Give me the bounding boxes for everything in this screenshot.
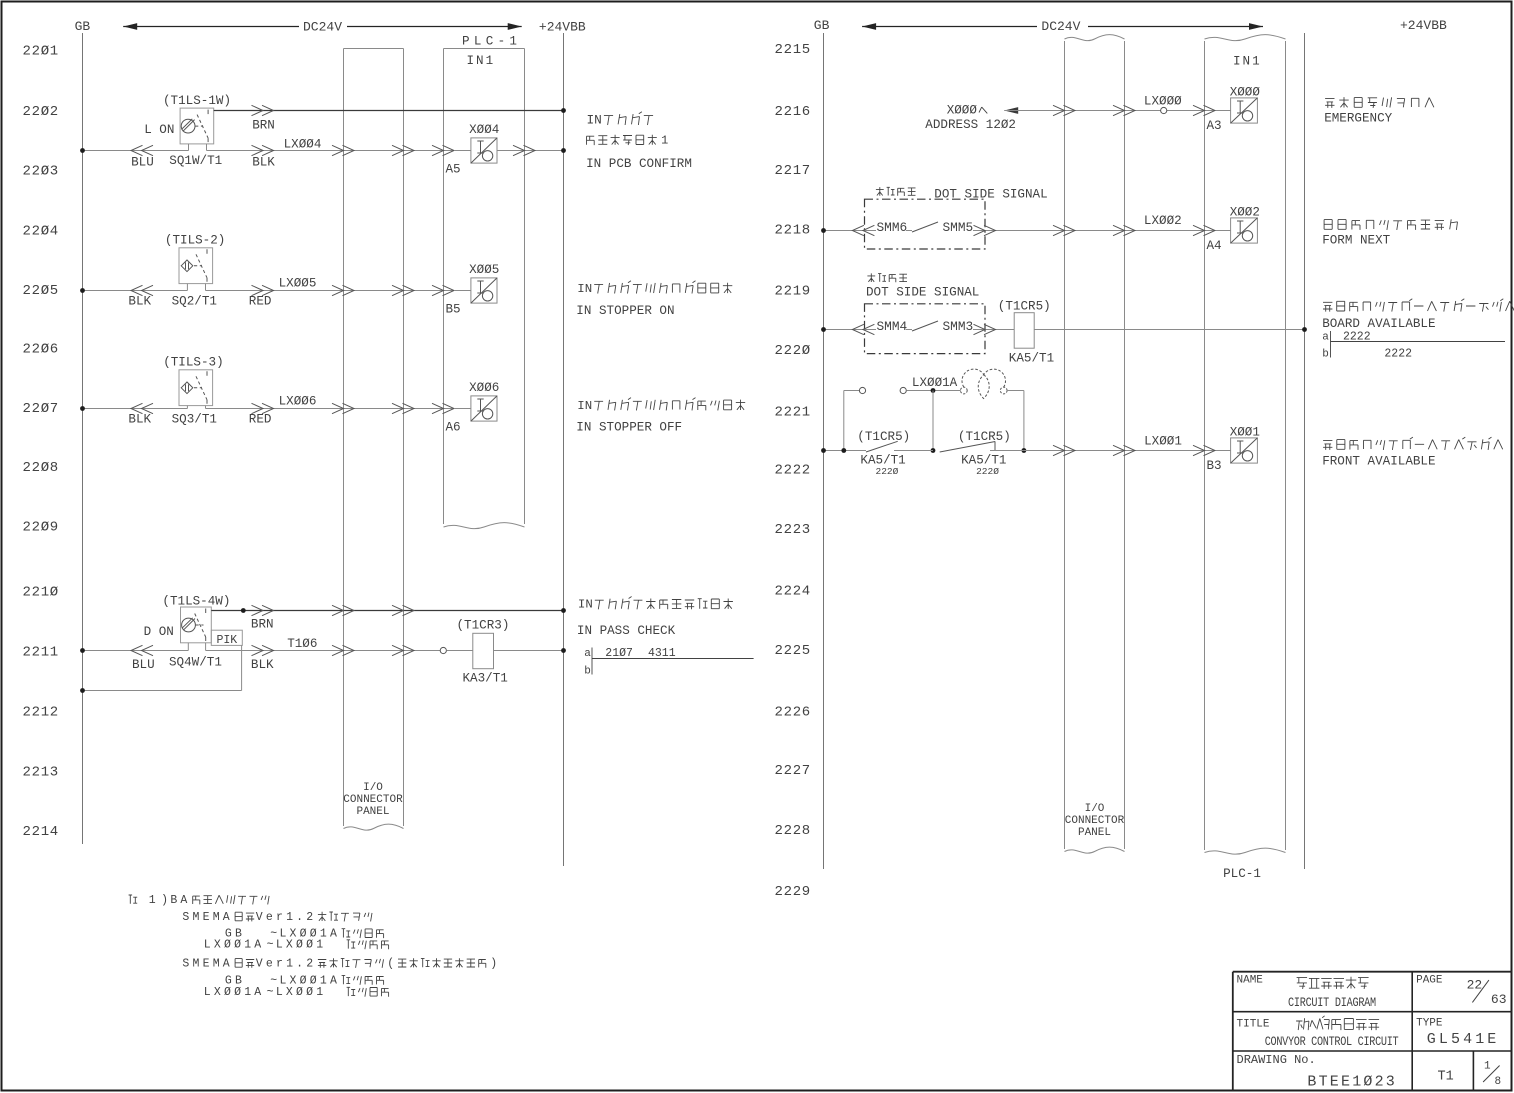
PLC input X006 pin A6: [446, 381, 500, 434]
svg-text:22Ø3: 22Ø3: [23, 164, 59, 180]
chevrons panel entry row 2222: [1053, 445, 1065, 455]
PLC input X002 pin A4: [1207, 205, 1260, 253]
junction corner on contact wire: [1022, 448, 1027, 453]
svg-text:I/O: I/O: [363, 782, 383, 794]
svg-text:PIK: PIK: [217, 634, 238, 647]
svg-text:A3: A3: [1207, 119, 1222, 133]
svg-text:DOT SIDE SIGNAL: DOT SIDE SIGNAL: [866, 286, 979, 300]
svg-text:XØØ6: XØØ6: [469, 381, 499, 395]
svg-text:22Ø5: 22Ø5: [23, 283, 59, 299]
wire SMM box to coil: [985, 329, 1014, 331]
chevrons BRN row 2210: [252, 605, 264, 615]
svg-text:T1Ø6: T1Ø6: [287, 637, 317, 651]
PLC-1 rack box (right): [1205, 35, 1286, 855]
external signal contact SMM6/SMM5: [865, 199, 986, 249]
PIK return branch to GB bus: [241, 645, 243, 690]
comment: IN conveyor side PCB pass confirm (Japanese): [595, 597, 733, 610]
svg-text:IN: IN: [587, 112, 602, 127]
wire GB to SMM box row 2218: [824, 230, 865, 232]
svg-text:SQ1W/T1: SQ1W/T1: [169, 154, 222, 168]
junction +24VBB row 2211: [561, 648, 566, 653]
limit switch SQ1W/T1 (T1LS-1W): [180, 108, 214, 150]
svg-text:SMM5: SMM5: [943, 220, 974, 235]
svg-text:a: a: [584, 648, 591, 660]
svg-text:(T1LS-1W): (T1LS-1W): [163, 94, 231, 108]
svg-text:a: a: [1322, 332, 1329, 344]
svg-text:IN: IN: [577, 282, 592, 296]
notes about BA signal (Japanese): [129, 895, 138, 904]
svg-text:2213: 2213: [23, 765, 59, 781]
svg-text:22: 22: [1467, 978, 1483, 993]
connector chevrons BLK: [252, 145, 264, 155]
svg-text:BOARD AVAILABLE: BOARD AVAILABLE: [1322, 317, 1435, 331]
svg-text:RED: RED: [249, 295, 272, 309]
junction GB row 2220: [821, 327, 826, 332]
svg-text:PANEL: PANEL: [1078, 827, 1111, 839]
wire X004 to +24VBB bus: [497, 150, 564, 152]
svg-text:+24VBB: +24VBB: [539, 20, 586, 35]
+24VBB bus (left): [563, 33, 565, 866]
chevrons BRN panel exit: [392, 605, 404, 615]
svg-text:BRN: BRN: [252, 119, 275, 133]
rung number column (right) 2215-2229: [775, 42, 811, 900]
svg-text:GL541E: GL541E: [1427, 1031, 1500, 1048]
svg-text:LXØØØ: LXØØØ: [1144, 95, 1182, 109]
wire GB bus to switch (BLU): [83, 150, 189, 152]
wire coil to +24VBB: [494, 650, 564, 652]
svg-text:DC24V: DC24V: [1041, 19, 1080, 34]
svg-text:BRN: BRN: [251, 618, 274, 632]
comment: board available from previous process (Japanese): [1323, 299, 1514, 312]
comment: board over label from previous process (Japanese): [1323, 437, 1503, 450]
chevrons RED: [252, 285, 264, 295]
svg-text:TITLE: TITLE: [1237, 1019, 1270, 1031]
PLC input X005 pin B5: [446, 263, 500, 316]
connector chevrons toward bus: [131, 145, 143, 155]
rung number column (left) 2201-2214: [23, 44, 59, 841]
svg-text:2214: 2214: [23, 824, 59, 840]
svg-text:(T1CR5): (T1CR5): [857, 430, 910, 444]
svg-text:LXØØ1A: LXØØ1A: [204, 939, 265, 952]
svg-text:CONVYOR CONTROL CIRCUIT: CONVYOR CONTROL CIRCUIT: [1265, 1036, 1399, 1049]
svg-text:SQ4W/T1: SQ4W/T1: [169, 656, 222, 670]
junction +24VBB row 2210: [561, 608, 566, 613]
wire into X001: [1216, 450, 1231, 452]
junction +24VBB row 2220: [1302, 327, 1307, 332]
svg-text:KA3/T1: KA3/T1: [463, 672, 508, 686]
GB bus (right): [823, 33, 825, 869]
wire into X006: [454, 408, 471, 410]
wire LX001A: [906, 390, 960, 392]
wire GB bus to TILS-2: [83, 290, 188, 292]
branch LX001A down to contact wire: [932, 391, 934, 451]
svg-text:PAGE: PAGE: [1416, 975, 1443, 987]
svg-text:IN STOPPER ON: IN STOPPER ON: [576, 304, 674, 318]
title block sheet 1/8: [1483, 1061, 1501, 1089]
svg-text:22Ø4: 22Ø4: [23, 224, 59, 240]
svg-text:LXØØ1: LXØØ1: [276, 986, 327, 999]
svg-text:I/O: I/O: [1085, 803, 1105, 815]
junction GB row 2222: [821, 448, 826, 453]
chevrons toward bus row 2205: [131, 285, 143, 295]
svg-text:222Ø: 222Ø: [876, 466, 899, 477]
wire SMM box to PLC row 2218: [985, 230, 1231, 232]
terminal circle LX000: [1161, 107, 1167, 113]
junction on BRN wire: [241, 608, 246, 613]
svg-text:2228: 2228: [775, 823, 811, 839]
svg-text:63: 63: [1491, 992, 1507, 1007]
svg-text:XØØ2: XØØ2: [1230, 205, 1260, 219]
svg-text:EMERGENCY: EMERGENCY: [1324, 112, 1392, 126]
chevrons toward bus row 2211: [131, 645, 143, 655]
svg-text:SMEMA: SMEMA: [182, 957, 233, 970]
junction contact wire mid: [931, 448, 936, 453]
relay contact KA5/T1 NC (T1CR5) second: [940, 430, 1024, 477]
svg-text:1: 1: [149, 894, 159, 907]
svg-text:222Ø: 222Ø: [976, 466, 999, 477]
svg-text:2219: 2219: [775, 284, 811, 300]
svg-text:22Ø7: 22Ø7: [23, 401, 59, 417]
svg-text:2212: 2212: [23, 705, 59, 721]
chevrons panel entry row 2205: [332, 285, 344, 295]
chevrons PLC entry row 2222: [1193, 445, 1205, 455]
svg-text:TYPE: TYPE: [1416, 1018, 1443, 1030]
wire RED / LX006 to PLC: [206, 408, 471, 410]
I/O connector panel column (left): [344, 49, 404, 831]
wire into X002: [1216, 230, 1231, 232]
I/O connector panel column (right): [1065, 35, 1125, 854]
svg-text:DOT SIDE SIGNAL: DOT SIDE SIGNAL: [934, 188, 1047, 202]
svg-text:IN PASS CHECK: IN PASS CHECK: [577, 624, 676, 638]
svg-text:b: b: [1322, 349, 1329, 361]
svg-text:22Ø6: 22Ø6: [23, 342, 59, 358]
junction GB row 2218: [821, 228, 826, 233]
svg-text:2218: 2218: [775, 223, 811, 239]
comment: IN conveyor stopper-in confirm (Japanese): [594, 281, 732, 294]
svg-text:T1: T1: [1438, 1070, 1454, 1085]
svg-text:XØØØ: XØØØ: [1230, 85, 1261, 99]
svg-text:CONNECTOR: CONNECTOR: [343, 794, 403, 806]
svg-text:2227: 2227: [775, 763, 811, 779]
proximity switch SQ2/T1 (TILS-2): [179, 248, 213, 291]
svg-text:CIRCUIT DIAGRAM: CIRCUIT DIAGRAM: [1288, 997, 1376, 1010]
wire into X004: [454, 150, 471, 152]
svg-text:RED: RED: [249, 413, 272, 427]
svg-text:2217: 2217: [775, 163, 811, 179]
svg-text:LXØØ1A: LXØØ1A: [912, 376, 958, 390]
svg-text:ADDRESS 12Ø2: ADDRESS 12Ø2: [925, 118, 1016, 132]
jumper stub 1 (GB side): [843, 391, 845, 451]
arrow to X000 address: [1004, 107, 1018, 114]
svg-text:1: 1: [661, 134, 668, 148]
chevrons at panel entry: [332, 145, 344, 155]
junction stub1: [841, 448, 846, 453]
svg-text:222Ø: 222Ø: [775, 343, 811, 359]
chevrons PLC entry row 2207: [432, 403, 444, 413]
chevrons panel exit row 2205: [392, 285, 404, 295]
relay coil KA3/T1 (T1CR3): [473, 633, 494, 668]
svg-text:BLK: BLK: [251, 658, 274, 672]
connector chevrons on BRN wire: [252, 105, 264, 115]
svg-text:(: (: [387, 957, 394, 970]
chevrons panel exit row 2211: [392, 645, 404, 655]
chevrons BRN panel entry: [332, 605, 344, 615]
svg-text:FRONT AVAILABLE: FRONT AVAILABLE: [1322, 455, 1435, 469]
svg-text:SQ3/T1: SQ3/T1: [172, 413, 217, 427]
svg-text:IN1: IN1: [1233, 55, 1262, 69]
svg-text:+24VBB: +24VBB: [1400, 18, 1447, 33]
svg-text:BA: BA: [170, 894, 190, 907]
chevrons panel exit row 2218: [1113, 225, 1125, 235]
wire BRN row 2210 to +24VBB: [211, 610, 563, 612]
svg-text:LXØØ1A: LXØØ1A: [204, 986, 265, 999]
label X000he / ADDRESS 1202: [979, 107, 987, 113]
svg-text:DRAWING No.: DRAWING No.: [1237, 1053, 1316, 1067]
cross reference a/b 2222: [1322, 331, 1505, 361]
svg-text:SMEMA: SMEMA: [182, 911, 233, 924]
junction LX001A branch: [931, 388, 936, 393]
junction GB row 2211: [80, 648, 85, 653]
junction GB return: [80, 688, 85, 693]
DC24V span arrow (left): [123, 23, 522, 30]
svg-text:SQ2/T1: SQ2/T1: [172, 295, 217, 309]
svg-text:2229: 2229: [775, 884, 811, 900]
svg-text:2216: 2216: [775, 104, 811, 120]
svg-text:2222: 2222: [1384, 348, 1412, 361]
svg-text:XØØ5: XØØ5: [469, 263, 499, 277]
svg-text:L ON: L ON: [144, 123, 174, 137]
svg-text:PLC-1: PLC-1: [1223, 867, 1261, 881]
svg-text:PANEL: PANEL: [356, 806, 389, 818]
svg-text:A4: A4: [1207, 239, 1222, 253]
svg-text:(T1CR5): (T1CR5): [998, 300, 1051, 314]
svg-text:22Ø9: 22Ø9: [23, 520, 59, 536]
comment: board feed from next process (Japanese): [1324, 219, 1457, 230]
chevrons BLK row 2211: [252, 645, 264, 655]
PLC input X001 pin B3: [1207, 425, 1260, 473]
chevrons at panel exit: [392, 145, 404, 155]
svg-text:LXØØ1: LXØØ1: [276, 939, 327, 952]
svg-text:221Ø: 221Ø: [23, 585, 59, 601]
svg-text:BLU: BLU: [132, 658, 155, 672]
svg-text:LXØØ2: LXØØ2: [1144, 214, 1182, 228]
PLC input X000 pin A3: [1207, 85, 1261, 133]
GB bus (left): [82, 33, 84, 844]
svg-text:B5: B5: [446, 302, 461, 316]
svg-text:B3: B3: [1207, 459, 1222, 473]
svg-text:4311: 4311: [648, 647, 676, 660]
svg-text:2226: 2226: [775, 705, 811, 721]
svg-text:(T1CR3): (T1CR3): [457, 619, 510, 633]
svg-text:LXØØ6: LXØØ6: [279, 395, 317, 409]
relay contact KA5/T1 NO (T1CR5): [849, 430, 933, 477]
svg-text:BLK: BLK: [128, 413, 151, 427]
svg-text:LXØØ1: LXØØ1: [1144, 435, 1182, 449]
+24VBB bus (right): [1304, 33, 1306, 869]
terminal circle LX001A left: [900, 387, 906, 393]
chevrons panel exit row 2216: [1113, 105, 1125, 115]
chevrons PLC entry row 2218: [1193, 225, 1205, 235]
comment: emergency stop switch (Japanese): [1325, 97, 1434, 108]
svg-text:(TILS-3): (TILS-3): [163, 356, 223, 370]
svg-text:LXØØ5: LXØØ5: [279, 277, 317, 291]
wire LX000 row 2216: [1004, 110, 1160, 112]
svg-text:XØØ4: XØØ4: [469, 123, 499, 137]
wire LX001 to PLC: [1024, 450, 1231, 452]
wire into X005: [454, 290, 471, 292]
svg-text:DC24V: DC24V: [303, 20, 342, 35]
chevrons panel entry row 2211: [332, 645, 344, 655]
svg-text:BLK: BLK: [252, 156, 275, 170]
svg-text:KA5/T1: KA5/T1: [1009, 352, 1054, 366]
svg-text:SMM6: SMM6: [877, 220, 908, 235]
junction GB bus row 2207: [80, 406, 85, 411]
chevrons at SMM box right row 2219: [974, 324, 986, 334]
svg-text:8: 8: [1495, 1076, 1502, 1088]
chevrons panel entry row 2207: [332, 403, 344, 413]
PLC-1 rack box (left): [444, 49, 525, 529]
junction +24VBB x BRN: [561, 108, 566, 113]
junction +24VBB row 2203: [561, 148, 566, 153]
svg-text:(T1LS-4W): (T1LS-4W): [162, 595, 230, 609]
svg-text:GB: GB: [814, 18, 830, 33]
svg-text:A5: A5: [446, 162, 461, 176]
cross reference a/b 2107 4311: [584, 647, 753, 678]
svg-text:2211: 2211: [23, 645, 59, 661]
svg-text:PLC-1: PLC-1: [462, 35, 521, 49]
chevrons toward bus row 2207: [131, 403, 143, 413]
svg-text:D ON: D ON: [144, 625, 174, 639]
chevrons after PLC: [513, 145, 525, 155]
relay coil KA5/T1 (T1CR5): [1014, 313, 1034, 349]
external signal contact SMM4/SMM3: [865, 304, 986, 354]
wire BLK / LX004 from switch to PLC: [207, 150, 471, 152]
svg-text:FORM NEXT: FORM NEXT: [1322, 234, 1390, 248]
junction GB bus row 2205: [80, 288, 85, 293]
svg-text:BTEE1Ø23: BTEE1Ø23: [1307, 1073, 1397, 1090]
svg-text:SMM3: SMM3: [943, 319, 974, 334]
limit switch SQ4W/T1 (T1LS-4W): [181, 607, 212, 651]
svg-text:NAME: NAME: [1237, 975, 1264, 987]
chevrons panel entry row 2216: [1053, 105, 1065, 115]
wire GB bus row 2222: [824, 450, 867, 452]
svg-text:~: ~: [267, 986, 274, 999]
svg-text:A6: A6: [446, 420, 461, 434]
svg-text:b: b: [584, 666, 591, 678]
svg-text:IN1: IN1: [467, 54, 496, 68]
svg-text:22Ø8: 22Ø8: [23, 460, 59, 476]
svg-text:IN PCB CONFIRM: IN PCB CONFIRM: [586, 157, 692, 171]
svg-text:(TILS-2): (TILS-2): [165, 234, 225, 248]
svg-text:22Ø2: 22Ø2: [23, 104, 59, 120]
svg-text:XØØØ: XØØØ: [947, 104, 978, 118]
wire GB bus to SQ4W (BLU): [83, 650, 189, 652]
terminal circle stub1: [859, 387, 865, 393]
svg-text:): ): [161, 894, 168, 907]
svg-text:2225: 2225: [775, 643, 811, 659]
svg-text:CONNECTOR: CONNECTOR: [1065, 815, 1125, 827]
svg-text:22Ø1: 22Ø1: [23, 44, 59, 60]
PLC input X004 pin A5: [446, 123, 500, 176]
chevrons PLC entry row 2205: [432, 285, 444, 295]
chevrons at PLC entry: [432, 145, 444, 155]
wire GB bus to TILS-3: [83, 408, 188, 410]
comment: IN conveyor PCB arrival confirm 1 (Japanese): [604, 112, 653, 125]
svg-text:2223: 2223: [775, 522, 811, 538]
chevrons PLC entry row 2216: [1193, 105, 1205, 115]
comment: IN conveyor stopper-out confirm (Japanese): [594, 398, 745, 411]
svg-text:1: 1: [1484, 1061, 1491, 1073]
label gaibu shingo / DOT SIDE SIGNAL row 2218: [876, 187, 916, 196]
svg-text:2221: 2221: [775, 405, 811, 421]
junction GB bus row 2203: [80, 148, 85, 153]
wire coil to +24VBB: [1034, 329, 1304, 331]
chevrons panel exit row 2207: [392, 403, 404, 413]
wire BRN from switch to +24VBB bus: [214, 110, 564, 112]
svg-text:2222: 2222: [1343, 331, 1371, 344]
proximity switch SQ3/T1 (TILS-3): [179, 370, 213, 409]
svg-text:LXØØ4: LXØØ4: [284, 137, 322, 151]
svg-text:Ver1.2: Ver1.2: [256, 911, 317, 924]
DC24V span arrow (right): [862, 23, 1263, 30]
svg-text:): ): [490, 957, 497, 970]
svg-text:IN: IN: [578, 598, 593, 612]
wire plug to corner: [1007, 390, 1024, 392]
PIK terminal box: [211, 630, 242, 647]
chevrons panel entry row 2218: [1053, 225, 1065, 235]
svg-text:21Ø7: 21Ø7: [605, 647, 633, 660]
chevrons RED row 2207: [252, 403, 264, 413]
wire circle to coil: [446, 650, 472, 652]
title block table: [1233, 972, 1512, 1091]
wire BLK / T106 to coil: [206, 650, 441, 652]
svg-text:BLK: BLK: [128, 295, 151, 309]
chevrons panel exit row 2222: [1113, 445, 1125, 455]
chevrons at SMM box left row 2218: [852, 225, 864, 235]
chevrons at SMM box left row 2219: [852, 324, 864, 334]
svg-text:2222: 2222: [775, 463, 811, 479]
svg-text:IN: IN: [577, 399, 592, 413]
svg-text:2215: 2215: [775, 42, 811, 58]
wire GB to SMM box row 2219: [824, 329, 865, 331]
svg-text:IN STOPPER OFF: IN STOPPER OFF: [576, 421, 682, 435]
coil terminal circle: [440, 647, 446, 653]
svg-text:GB: GB: [75, 19, 91, 34]
svg-text:2224: 2224: [775, 584, 811, 600]
svg-text:Ver1.2: Ver1.2: [256, 957, 317, 970]
svg-text:(T1CR5): (T1CR5): [958, 430, 1011, 444]
wire into X000: [1216, 110, 1231, 112]
svg-text:~: ~: [267, 939, 274, 952]
chevrons at SMM box right row 2218: [974, 225, 986, 235]
label gaibu shingo / DOT SIDE SIGNAL row 2219: [867, 273, 907, 282]
svg-text:SMM4: SMM4: [877, 319, 908, 334]
connector engaged symbol (plug/socket): [960, 369, 1007, 398]
svg-text:BLU: BLU: [131, 156, 154, 170]
svg-text:XØØ1: XØØ1: [1230, 425, 1260, 439]
wire RED / LX005 to PLC: [206, 290, 471, 292]
